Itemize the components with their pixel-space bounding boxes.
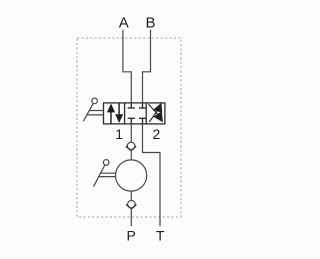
check valve CV1 [126, 142, 136, 150]
wire valve to check valve CV1 [130, 124, 132, 142]
valve position 2: crossed arrows [148, 103, 163, 123]
wire B [143, 30, 151, 103]
wire pump to check valve CV2 [130, 191, 132, 200]
hand pump PU1 [116, 160, 147, 191]
pump manual lever [94, 160, 116, 187]
wire A [123, 30, 131, 103]
svg-text:T: T [156, 228, 165, 244]
check valve CV2 [126, 200, 136, 208]
valve center position blocked port marks [128, 103, 146, 124]
svg-text:A: A [119, 15, 129, 32]
valve position 1: down arrow [115, 103, 123, 123]
svg-text:2: 2 [153, 126, 161, 142]
wire valve to port T [143, 124, 161, 226]
svg-text:P: P [127, 228, 136, 244]
svg-text:B: B [145, 15, 155, 32]
valve manual lever [83, 98, 103, 121]
wire CV1 to pump [130, 150, 132, 160]
enclosure dashed box [77, 38, 181, 217]
wire CV2 to port P [130, 208, 132, 226]
svg-text:1: 1 [115, 126, 123, 142]
valve position 1: up arrow [107, 104, 115, 124]
valve V1 body [104, 103, 165, 124]
